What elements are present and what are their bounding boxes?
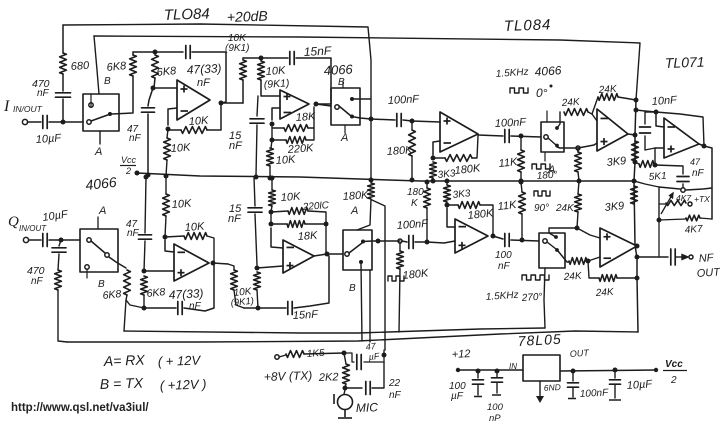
svg-text:10µF: 10µF — [35, 132, 62, 146]
wire 15nF to U2 out — [296, 58, 331, 104]
wire box4 output — [109, 257, 126, 268]
resistor 11K a — [518, 150, 525, 172]
box6 lever — [547, 242, 556, 249]
svg-text:IN/OUT: IN/OUT — [19, 224, 47, 233]
analog switch 4066 box5 — [343, 230, 372, 270]
wire 22nF right up — [372, 362, 384, 388]
wire Q2 + wire — [257, 266, 283, 268]
wire 15capQ to + node — [255, 214, 257, 265]
svg-text:10K: 10K — [184, 221, 205, 234]
svg-text:680: 680 — [70, 60, 90, 73]
analog switch 4066 box4 — [80, 229, 118, 272]
terminal I input — [22, 119, 27, 124]
box1 A stub — [99, 131, 101, 144]
wire 10KQ2 to rail — [271, 177, 273, 190]
wire Vcc/2 rail — [137, 173, 636, 181]
wire cap to U3 + — [403, 120, 440, 122]
terminal NF out — [689, 255, 693, 259]
regulator 78L05 box — [523, 355, 560, 381]
svg-text:(9K1): (9K1) — [225, 43, 249, 54]
wire box2 out to cap — [371, 119, 395, 120]
wire 1K5 to node — [304, 353, 344, 354]
wire 47uF branch — [344, 353, 354, 362]
svg-text:nF: nF — [31, 276, 44, 287]
resistor 10K(9K1) Qa — [231, 270, 238, 290]
svg-text:10K: 10K — [265, 65, 286, 78]
svg-text:nF: nF — [692, 168, 705, 179]
wire + node to Q1 — [144, 270, 174, 272]
junction rail at 11K — [519, 179, 524, 184]
junction bus top — [634, 98, 639, 103]
wire 11Kb top — [521, 182, 522, 192]
resistor 680 (Q branch) — [55, 270, 62, 290]
junction U3 fb node — [431, 156, 436, 161]
wire U4 out to bus — [628, 134, 635, 135]
svg-text:(9K1): (9K1) — [230, 296, 254, 309]
svg-text:100nF: 100nF — [396, 218, 429, 232]
svg-text:4066: 4066 — [323, 61, 353, 78]
resistor 10K (Q1 feedback) — [184, 233, 207, 240]
svg-text:http://www.qsl.net/va3iul/: http://www.qsl.net/va3iul/ — [11, 402, 149, 414]
dot after 0deg — [550, 85, 553, 88]
junction U3 input node — [410, 119, 415, 124]
100uF foot bar — [474, 396, 482, 398]
wire 15nF top — [261, 57, 288, 59]
wire 6K8Qa to inner loop — [124, 300, 126, 331]
junction U2 fb node a — [270, 122, 275, 127]
svg-text:10µF: 10µF — [626, 378, 653, 392]
resistor 220K (Q) — [288, 208, 308, 215]
junction 47uF node — [382, 353, 387, 358]
wire 11Ka to rail — [520, 172, 522, 181]
junction +8V node — [342, 351, 347, 356]
wire 47nFQ to + node — [144, 241, 145, 271]
resistor 680 — [60, 53, 67, 74]
svg-text:100: 100 — [495, 250, 512, 261]
ground reg — [536, 396, 544, 403]
svg-text:100nF: 100nF — [580, 387, 610, 400]
junction rail at 180KQ — [369, 178, 374, 183]
wire mic lead — [344, 390, 345, 394]
junction 100nF tap — [571, 369, 576, 374]
wire rail extension — [634, 181, 680, 189]
junction circle 180Kc — [398, 239, 402, 243]
svg-text:nF: nF — [228, 213, 242, 225]
resistor 4K7 (U5 fb) — [686, 215, 700, 221]
op-amp U3 — [440, 112, 478, 152]
junction U5 output — [702, 144, 707, 149]
svg-text:(9K1): (9K1) — [263, 77, 289, 91]
wire 24KQdn top — [578, 181, 579, 194]
svg-text:180°: 180° — [536, 170, 557, 182]
svg-text:I: I — [3, 98, 10, 115]
svg-text:24K: 24K — [555, 203, 575, 214]
op-amp U5 TL071 — [664, 118, 699, 158]
junction U4 output — [633, 133, 638, 138]
junction rail at 10KQ2 — [270, 176, 275, 181]
wire 100uF lead2 — [477, 385, 479, 395]
svg-text:100nF: 100nF — [495, 116, 528, 130]
junction rail at 180K — [410, 178, 415, 183]
box3 lever contact — [555, 144, 559, 148]
svg-text:Q: Q — [8, 214, 19, 230]
wire Q input to cap — [29, 239, 42, 241]
box3 A stub — [544, 152, 546, 161]
resistor 180K (U3 feedback) — [445, 155, 472, 162]
resistor 24K (Q4 fb) — [599, 275, 617, 282]
wire inner bottom loop — [124, 328, 545, 333]
svg-text:22: 22 — [388, 378, 401, 389]
junction 18KQ right — [324, 222, 329, 227]
wire 180KQ to box5 top — [357, 199, 371, 230]
wire U2 - to fb — [272, 108, 280, 120]
capacitor 15nF (Q2 fb) — [288, 302, 292, 315]
wire + node to U1 — [153, 87, 177, 89]
junction bus 5K1 tap — [633, 160, 638, 165]
trimmer arrow 4K7 — [661, 193, 673, 214]
svg-text:78L05: 78L05 — [517, 331, 562, 349]
wire 220K right — [306, 128, 314, 140]
wire 24KQdn bottom — [577, 212, 578, 228]
svg-text:nF: nF — [389, 390, 402, 401]
capacitor 470nF (I input) — [56, 93, 71, 97]
box4 lever — [91, 241, 105, 253]
op-amp U4 — [597, 109, 628, 151]
junction Q3 fb node — [445, 203, 450, 208]
wire Q branch to bottom loop — [58, 290, 67, 342]
wire box3 out to U4 + — [557, 143, 597, 148]
capacitor 10uF (I input) — [43, 116, 47, 129]
clock glyph 180deg — [532, 164, 550, 169]
junction Q3 output — [491, 234, 496, 239]
box3 lever — [548, 138, 556, 145]
svg-text:+12: +12 — [452, 348, 471, 361]
svg-text:TL071: TL071 — [665, 54, 705, 71]
wire 15nF Q right — [294, 256, 329, 308]
junction small circle box3 out — [576, 146, 580, 150]
junction Q2 fb node b — [269, 210, 274, 215]
wire diag to mic column — [372, 200, 385, 350]
wire 15nF cap to rail — [256, 125, 257, 176]
svg-text:µF: µF — [451, 391, 464, 402]
svg-text:OUT: OUT — [696, 266, 720, 280]
box5 contact input — [345, 252, 349, 256]
analog switch 4066 box6 — [539, 233, 565, 268]
svg-text:180K: 180K — [467, 207, 494, 222]
svg-text:18K: 18K — [295, 111, 316, 124]
junction Q1 output — [211, 261, 216, 266]
wire Q 470nF branch — [59, 240, 61, 246]
svg-text:11K: 11K — [497, 199, 518, 213]
wire U5 out down — [699, 144, 712, 219]
box6 contact top — [554, 235, 558, 239]
svg-text:A: A — [98, 205, 106, 217]
capacitor 47(33)nF (Q1) — [178, 302, 182, 315]
junction bus 24KQ2 — [635, 276, 640, 281]
svg-text:2: 2 — [125, 166, 131, 176]
wire - input drop — [656, 112, 664, 127]
svg-text:2K2: 2K2 — [318, 371, 339, 384]
wire top node to 6K8b — [133, 51, 155, 53]
wire Qmid to 180Kc — [378, 240, 400, 242]
svg-text:+20dB: +20dB — [227, 8, 268, 25]
capacitor 10uF (Q input) — [43, 234, 47, 247]
box6 bottom stub — [544, 268, 545, 328]
resistor 6K8 b — [152, 55, 159, 78]
wire U1 feedback cap top — [155, 51, 183, 53]
junction rail at 47nF — [146, 173, 151, 178]
op-amp Q4 — [600, 228, 637, 267]
wire top feedback line 1 (680 top to 4066 B box2) — [63, 24, 371, 119]
wire 100nF lead2 — [572, 388, 574, 397]
wire Q2 fb nodes link — [270, 212, 272, 224]
wire 100nP lead2 — [496, 383, 498, 393]
wire box5 output — [363, 240, 378, 243]
svg-text:180K: 180K — [342, 189, 369, 203]
wire 680 top lead — [62, 25, 64, 53]
junction Q fb bottom node — [142, 306, 147, 311]
box6 lever contact — [555, 248, 559, 252]
wire 18KQ left — [271, 223, 287, 225]
junction Q2 + node — [255, 266, 260, 271]
svg-text:47: 47 — [690, 157, 701, 167]
box2 B stub — [342, 82, 344, 88]
wire Q2 fb to output node — [325, 224, 327, 254]
svg-text:A: A — [340, 132, 348, 144]
svg-text:24K: 24K — [597, 84, 618, 96]
svg-text:+TX: +TX — [694, 194, 710, 204]
capacitor 100nF (Q3 in) — [409, 236, 413, 249]
svg-text:B: B — [349, 283, 356, 294]
wire 6K8b to + node — [154, 78, 155, 88]
wire 24KQup top — [577, 150, 579, 152]
svg-text:0°: 0° — [536, 86, 548, 100]
svg-text:24K: 24K — [594, 287, 615, 299]
resistor 5K1 — [639, 161, 654, 168]
wire left drop — [658, 187, 660, 220]
svg-text:6K8: 6K8 — [146, 286, 166, 300]
box5 right line down — [369, 270, 371, 342]
resistor 24K (Q1 in) — [569, 258, 587, 265]
junction 10K91b top — [259, 56, 264, 61]
junction Q input node — [59, 238, 64, 243]
clock glyph 270deg — [522, 275, 549, 280]
wire 6K8a top — [132, 52, 134, 55]
svg-text:nF: nF — [129, 133, 142, 144]
resistor 6K8 Qa — [124, 270, 131, 295]
svg-text:B = TX: B = TX — [100, 374, 144, 392]
wire 10K91b to U2 + — [261, 80, 280, 96]
box4 B stub — [86, 269, 88, 278]
wire +12 rail — [458, 369, 523, 371]
box1 lever pivot — [108, 112, 112, 116]
svg-text:nF: nF — [229, 140, 243, 152]
resistor 10K(9K1) b — [258, 61, 265, 80]
svg-text:A= RX: A= RX — [103, 352, 146, 369]
box5 contact bottom — [359, 260, 363, 264]
wire 180KQb top — [426, 182, 428, 188]
svg-text:nF: nF — [197, 77, 211, 89]
resistor 18K (Q) — [287, 221, 305, 228]
wire 18K leads — [272, 127, 284, 129]
svg-text:Vcc: Vcc — [665, 359, 683, 370]
wire Q1 fb right — [207, 236, 214, 263]
terminal Q input — [23, 237, 28, 242]
svg-text:180K: 180K — [402, 267, 429, 282]
capacitor 100uF — [473, 380, 484, 384]
wire Q1 bottom fb — [144, 307, 176, 309]
svg-text:24K: 24K — [562, 271, 583, 283]
svg-text:4066: 4066 — [85, 174, 118, 193]
resistor 6K8 Qb — [141, 276, 148, 295]
wire node up join — [383, 350, 385, 362]
svg-text:B: B — [98, 279, 105, 290]
clock glyph 90deg — [534, 191, 550, 196]
wire 11Ka leads — [520, 136, 522, 150]
wire cap to Q3 + — [415, 241, 455, 243]
svg-text:100nF: 100nF — [388, 93, 421, 107]
box4 contact input — [87, 238, 91, 242]
junction box5 input — [325, 252, 330, 257]
junction Q4 - node — [586, 259, 591, 264]
wire fb node link — [271, 124, 273, 140]
wire reg out rail — [560, 370, 656, 371]
box6 top stub — [549, 228, 577, 237]
op-amp Q3 — [455, 219, 488, 253]
wire Q3 - wire — [447, 208, 455, 227]
wire 47uF right — [364, 361, 384, 363]
svg-text:+8V (TX): +8V (TX) — [264, 368, 313, 384]
terminal 1K5 input — [275, 355, 279, 359]
wire 10K to output — [207, 103, 221, 130]
capacitor NF out — [671, 249, 675, 265]
svg-text:270°: 270° — [520, 292, 542, 304]
svg-text:5K1: 5K1 — [648, 171, 667, 183]
wire line1 down to rail — [370, 119, 372, 180]
junction U2 fb node b — [270, 138, 275, 143]
capacitor 47nF (Q) — [139, 235, 152, 239]
junction rail at 11Kb — [519, 180, 524, 185]
svg-text:3K9: 3K9 — [606, 155, 627, 169]
junction Q4 output — [635, 244, 640, 249]
wire 47nF to wiper — [682, 184, 684, 187]
resistor 24K (mid) — [564, 109, 588, 116]
box1 contact top stub — [90, 94, 92, 107]
junction Q1 fb node — [163, 235, 168, 240]
wire 180K to rail — [411, 156, 413, 179]
resistor 3K3 b — [444, 185, 451, 202]
svg-text:MIC: MIC — [356, 400, 379, 415]
svg-text:47(33): 47(33) — [186, 61, 221, 77]
svg-text:TL084: TL084 — [504, 16, 552, 35]
wire trimmer feed — [659, 203, 666, 205]
wire 2K2 top — [344, 353, 346, 364]
op-amp Q2 — [283, 240, 314, 273]
junction box5 output — [376, 239, 381, 244]
resistor 220K — [286, 137, 306, 144]
wire 10KQ1 to rail — [165, 177, 167, 194]
wire U1 - to fb node — [168, 108, 177, 125]
svg-text:6K8: 6K8 — [156, 65, 178, 79]
wire 5K1 to + — [654, 148, 656, 165]
wire 180K leads — [411, 121, 413, 130]
wire U1 out to 10K91a — [221, 102, 243, 104]
terminal Vcc/2 rail — [135, 171, 140, 176]
wire 10K91a top — [242, 58, 244, 60]
wire 10nF branch — [645, 112, 656, 124]
box5 B line down — [361, 264, 362, 341]
wire 10nF bottom — [645, 136, 663, 150]
resistor 2K2 — [343, 364, 350, 384]
junction I input node — [61, 120, 66, 125]
wire 1K5 lead — [279, 355, 286, 357]
wire box2 output — [352, 117, 371, 120]
junction U1 fb node — [166, 127, 171, 132]
resistor 10K (Q2 node to rail) — [269, 190, 276, 206]
resistor 10K (rail to Q1 node) — [163, 194, 170, 216]
svg-text:A: A — [350, 205, 358, 217]
wire fb node to 10K — [168, 129, 181, 130]
wire 10K to rail — [166, 160, 167, 176]
op-amp U2 — [280, 90, 309, 119]
box3 contact input — [544, 135, 548, 139]
svg-text:10µF: 10µF — [42, 208, 70, 224]
wire I input to cap — [28, 121, 42, 123]
capacitor 100nP — [492, 378, 503, 382]
svg-text:6K8: 6K8 — [106, 60, 128, 74]
junction 10nF tee — [654, 110, 659, 115]
junction box2 output — [369, 117, 374, 122]
junction rail at 3K3a — [431, 179, 436, 184]
resistor 3K9 a — [632, 141, 639, 161]
wire 10K91Qa bottom — [234, 290, 244, 308]
resistor 11K b — [519, 192, 526, 214]
svg-text:10K: 10K — [170, 142, 191, 155]
svg-text:OUT: OUT — [569, 348, 590, 359]
junction 100uF tap — [476, 369, 481, 374]
wire 100uF lead — [477, 371, 479, 378]
resistor 10K (U1 feedback) — [181, 127, 207, 134]
wire 24K top to bus — [618, 97, 636, 100]
wire Q1 out right — [213, 263, 228, 264]
wire 10K91a leads — [242, 80, 244, 103]
wire U3 fb to output — [472, 136, 478, 158]
wire 10uF lead2 — [614, 385, 616, 398]
wire Q3 out to cap — [493, 236, 503, 239]
capacitor 100nF (U3 in) — [397, 114, 401, 127]
svg-text:10K: 10K — [171, 198, 192, 211]
capacitor 47nF (U5) — [677, 177, 689, 182]
wire Q2 - wire — [271, 228, 283, 248]
wire 10K91Qa top — [228, 264, 234, 270]
svg-text:µF: µF — [368, 351, 380, 362]
svg-text:180K: 180K — [386, 144, 413, 158]
wire U2 + cap drop — [257, 96, 258, 116]
junction 5K1 right — [653, 163, 658, 168]
svg-text:( + 12V: ( + 12V — [158, 352, 202, 369]
svg-text:A: A — [94, 146, 102, 158]
resistor 24K (Q down) — [575, 194, 582, 212]
wire 220KQ right — [308, 211, 326, 224]
wire 10uF lead — [614, 370, 616, 378]
svg-text:220lC: 220lC — [301, 200, 330, 213]
wire Q3 fb right — [480, 205, 493, 234]
resistor 3K3 a — [430, 162, 437, 178]
junction rail at 24KQ — [577, 179, 582, 184]
wire 24K mid to U4 - — [588, 112, 597, 121]
svg-text:nF: nF — [498, 261, 511, 272]
wire 2K2 bottom — [345, 384, 346, 388]
